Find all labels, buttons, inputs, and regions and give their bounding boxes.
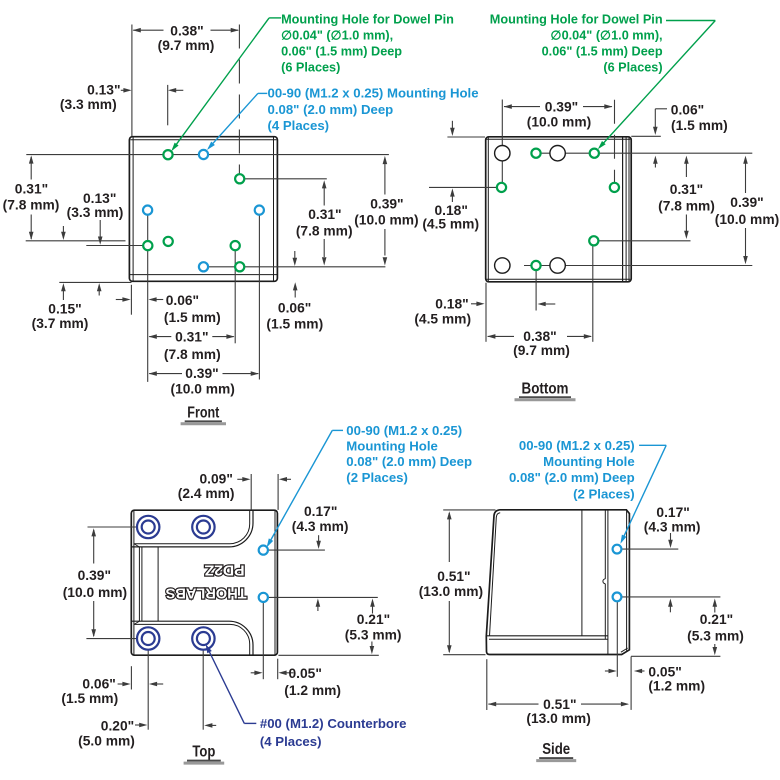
blue leader to side-view mounting hole — [639, 444, 666, 446]
dim 0.05 side extension lines — [616, 602, 618, 677]
dim 0.05 side arrows and label — [605, 670, 610, 672]
svg-text:Mounting Hole for Dowel Pin: Mounting Hole for Dowel Pin — [281, 13, 454, 27]
svg-text:Side: Side — [542, 741, 570, 758]
dim 0.51 left extension lines — [443, 509, 495, 511]
svg-text:(2.4 mm): (2.4 mm) — [178, 486, 235, 501]
svg-text:Bottom: Bottom — [522, 380, 569, 397]
svg-text:Mounting Hole for Dowel Pin: Mounting Hole for Dowel Pin — [490, 13, 663, 27]
bottom view top edge right extension line — [631, 135, 661, 137]
svg-text:0.18": 0.18" — [435, 297, 468, 312]
blue leader to front mounting hole — [258, 92, 267, 94]
svg-text:(13.0 mm): (13.0 mm) — [419, 584, 483, 599]
svg-text:PD2Z: PD2Z — [205, 561, 245, 578]
side view hole row extension lines — [621, 548, 678, 550]
dim 0.05 top-view arrows and label — [251, 672, 256, 674]
svg-text:0.15": 0.15" — [48, 301, 81, 316]
dim 0.39 bottom-view right dimension line — [743, 156, 748, 164]
dim 0.06 top-view extension line — [130, 666, 132, 689]
front lower-left hole row extension lines — [26, 240, 126, 242]
bottom view top edge left extension line — [447, 136, 485, 138]
front mounting holes (blue) — [199, 150, 208, 159]
dim 0.51 bottom dimension line with arrows — [488, 703, 538, 705]
svg-text:0.05": 0.05" — [648, 665, 681, 680]
front top hole row extension line — [26, 154, 389, 156]
svg-text:(5.3 mm): (5.3 mm) — [345, 627, 402, 642]
svg-text:0.06": 0.06" — [82, 677, 115, 692]
top view mounting holes (light blue) — [259, 546, 268, 555]
dim 0.13 top hole extension line — [167, 85, 169, 125]
side view base lip lines — [486, 635, 608, 637]
side view lip right edge line — [607, 511, 609, 655]
svg-text:0.39": 0.39" — [545, 100, 578, 115]
svg-text:0.06" (1.5 mm) Deep: 0.06" (1.5 mm) Deep — [281, 45, 402, 59]
top view flange corner chamfer marks — [134, 544, 139, 547]
bottom view hole row extension lines — [531, 152, 752, 154]
svg-text:(5.0 mm): (5.0 mm) — [78, 733, 135, 748]
top view upper flange outline — [131, 511, 253, 547]
front bottom extension columns — [147, 215, 149, 382]
svg-text:0.17": 0.17" — [656, 505, 689, 520]
dim 0.38 left extension line — [131, 25, 133, 137]
svg-text:0.31": 0.31" — [308, 207, 341, 222]
side view outer outline — [486, 510, 629, 655]
svg-text:(3.3 mm): (3.3 mm) — [60, 97, 117, 112]
svg-text:0.13": 0.13" — [87, 83, 120, 98]
dim 0.21 side label and arrows — [713, 599, 718, 607]
dim 0.15 upper arrow (down to hole row) — [62, 226, 64, 233]
bottom view through holes (black) — [495, 146, 510, 161]
svg-text:(6 Places): (6 Places) — [603, 60, 662, 74]
svg-text:0.39": 0.39" — [730, 195, 763, 210]
front bottom hole row extension line — [208, 266, 385, 268]
dim 0.06 partner up arrow — [653, 156, 658, 164]
dim 0.13 top arrows — [121, 89, 126, 91]
svg-text:0.06": 0.06" — [166, 293, 199, 308]
dim 0.13 lower-left leader arrow — [99, 220, 101, 238]
side view inner right edge line — [626, 511, 628, 651]
svg-text:00-90 (M1.2 x 0.25) Mounting H: 00-90 (M1.2 x 0.25) Mounting Hole — [268, 86, 479, 101]
svg-text:0.39": 0.39" — [185, 366, 218, 381]
top view inner left edge line — [133, 511, 135, 655]
side view inner slant line — [490, 513, 501, 636]
dim 0.39 top dimension line with arrows — [504, 106, 540, 108]
svg-text:THORLABS: THORLABS — [166, 584, 247, 601]
bottom view outer outline — [486, 137, 632, 282]
svg-text:(3.7 mm): (3.7 mm) — [32, 316, 89, 331]
svg-text:0.39": 0.39" — [370, 196, 403, 211]
svg-text:0.17": 0.17" — [304, 504, 337, 519]
dim 0.39 front-right dimension line with arrows — [384, 163, 386, 195]
svg-text:#00 (M1.2) Counterbore: #00 (M1.2) Counterbore — [260, 716, 407, 731]
dim 0.09 extension lines — [250, 474, 252, 510]
top view inner right edge line — [274, 511, 276, 655]
svg-text:0.08" (2.0 mm) Deep: 0.08" (2.0 mm) Deep — [346, 454, 472, 469]
svg-text:0.05": 0.05" — [288, 666, 321, 681]
bottom view dowel pin holes (green) — [531, 149, 540, 158]
front right 0.06 arrows — [294, 251, 296, 259]
svg-text:0.51": 0.51" — [437, 569, 470, 584]
svg-text:(10.0 mm): (10.0 mm) — [527, 114, 591, 129]
svg-text:(2 Places): (2 Places) — [346, 470, 408, 485]
svg-text:0.31": 0.31" — [15, 181, 48, 196]
svg-text:(7.8 mm): (7.8 mm) — [164, 347, 221, 362]
svg-text:(9.7 mm): (9.7 mm) — [158, 38, 215, 53]
dim 0.38 bottom dimension line with arrows — [488, 335, 514, 337]
svg-text:0.13": 0.13" — [83, 191, 116, 206]
svg-text:0.31": 0.31" — [670, 182, 703, 197]
svg-text:(10.0 mm): (10.0 mm) — [715, 212, 779, 227]
bottom view column extension lines — [501, 100, 503, 184]
top view hole row extension lines right — [268, 549, 325, 551]
svg-text:0.38": 0.38" — [170, 23, 203, 38]
svg-text:(1.2 mm): (1.2 mm) — [284, 683, 341, 698]
svg-text:(13.0 mm): (13.0 mm) — [526, 711, 590, 726]
svg-text:0.21": 0.21" — [700, 612, 733, 627]
svg-text:0.06": 0.06" — [278, 301, 311, 316]
dim 0.31 front-right dimension line with arrows — [323, 186, 325, 206]
front view outer outline — [129, 137, 277, 282]
front bottom edge left extension line — [59, 281, 131, 283]
svg-text:∅0.04" (∅1.0 mm),: ∅0.04" (∅1.0 mm), — [551, 29, 663, 43]
svg-text:(1.5 mm): (1.5 mm) — [671, 118, 728, 133]
side view notch arc — [603, 579, 605, 584]
svg-text:(4 Places): (4 Places) — [268, 118, 330, 133]
svg-text:(4.3 mm): (4.3 mm) — [292, 519, 349, 534]
front G2 hole row extension line — [244, 178, 326, 180]
svg-text:00-90 (M1.2 x 0.25): 00-90 (M1.2 x 0.25) — [346, 423, 462, 438]
svg-text:Top: Top — [192, 744, 215, 761]
svg-text:0.08" (2.0 mm) Deep: 0.08" (2.0 mm) Deep — [509, 470, 635, 485]
top view body edge lines — [138, 547, 140, 621]
svg-text:(10.0 mm): (10.0 mm) — [354, 213, 418, 228]
dim 0.38 right extension centerline (dashed) — [238, 25, 240, 175]
svg-text:(6 Places): (6 Places) — [281, 60, 340, 74]
svg-text:(3.3 mm): (3.3 mm) — [67, 205, 124, 220]
svg-text:00-90 (M1.2 x 0.25): 00-90 (M1.2 x 0.25) — [519, 438, 635, 453]
top view outer outline — [131, 510, 277, 655]
svg-text:(7.8 mm): (7.8 mm) — [296, 223, 353, 238]
svg-text:(1.5 mm): (1.5 mm) — [164, 310, 221, 325]
svg-text:0.08" (2.0 mm) Deep: 0.08" (2.0 mm) Deep — [268, 102, 394, 117]
dim 0.15 and 0.13 lower arrows (up to bottom edge) — [61, 283, 66, 291]
side view mounting holes (blue) — [613, 545, 622, 554]
svg-text:0.39": 0.39" — [78, 568, 111, 583]
svg-text:(5.3 mm): (5.3 mm) — [687, 629, 744, 644]
svg-text:0.06": 0.06" — [671, 102, 704, 117]
dim 0.38 dimension line with arrows — [133, 29, 163, 31]
svg-text:(4.5 mm): (4.5 mm) — [414, 312, 471, 327]
dim 0.18 upper-left arrows and label — [451, 121, 453, 129]
svg-text:(1.5 mm): (1.5 mm) — [61, 691, 118, 706]
dim 0.39 bottom dimension line with arrows — [149, 373, 182, 375]
top view counterbores (dark blue) — [137, 516, 159, 538]
svg-text:(2 Places): (2 Places) — [573, 487, 635, 502]
svg-text:0.20": 0.20" — [101, 719, 134, 734]
svg-text:(10.0 mm): (10.0 mm) — [170, 382, 234, 397]
dim 0.51 bottom extension line left — [486, 659, 488, 710]
svg-text:0.21": 0.21" — [357, 612, 390, 627]
top view counterbore column extension lines — [147, 639, 149, 730]
dim 0.31 bottom dimension line with arrows — [149, 336, 171, 338]
svg-text:Mounting Hole: Mounting Hole — [543, 454, 635, 469]
svg-text:0.06" (1.5 mm) Deep: 0.06" (1.5 mm) Deep — [542, 45, 663, 59]
svg-text:(1.5 mm): (1.5 mm) — [266, 316, 323, 331]
side view body edge lines — [581, 511, 583, 636]
svg-text:(7.8 mm): (7.8 mm) — [3, 198, 60, 213]
svg-text:(7.8 mm): (7.8 mm) — [658, 199, 715, 214]
side view inner chamfer at bottom-right corner — [621, 648, 628, 652]
dark blue leader to counterbore — [244, 722, 256, 724]
bottom view inner edge lines — [487, 138, 489, 282]
svg-text:0.09": 0.09" — [199, 472, 232, 487]
top view lower flange outline — [131, 621, 253, 655]
green leader to bottom-view dowel hole — [666, 20, 715, 22]
front dowel pin holes (green) — [163, 150, 172, 159]
blue leader to top-view mounting hole — [332, 429, 343, 431]
dim 0.31 bottom-view right dimension line — [684, 156, 689, 164]
svg-text:(4.5 mm): (4.5 mm) — [422, 217, 479, 232]
dim 0.06 top-right bracket and label — [654, 109, 656, 128]
svg-text:Front: Front — [187, 404, 220, 421]
dim 0.31 left dimension line with arrows — [30, 157, 32, 180]
dim 0.21 top-view label and arrows — [370, 599, 375, 607]
dim 0.39 top-view left dimension line — [91, 528, 96, 536]
dim 0.51 left dimension line with arrows — [447, 511, 452, 519]
svg-text:(4.3 mm): (4.3 mm) — [644, 520, 701, 535]
svg-text:0.38": 0.38" — [523, 329, 556, 344]
dim 0.05 top-view extension lines — [262, 602, 264, 679]
svg-text:0.51": 0.51" — [543, 697, 576, 712]
green leader to front dowel hole — [269, 17, 281, 19]
svg-text:0.31": 0.31" — [175, 329, 208, 344]
svg-text:(9.7 mm): (9.7 mm) — [513, 343, 570, 358]
dim 0.06 bottom arrows and label — [116, 299, 124, 301]
front view inner edge lines — [132, 137, 134, 280]
svg-text:(10.0 mm): (10.0 mm) — [63, 585, 127, 600]
svg-text:(4 Places): (4 Places) — [260, 734, 322, 749]
dim 0.09 arrows and label — [237, 478, 243, 480]
svg-text:∅0.04" (∅1.0 mm),: ∅0.04" (∅1.0 mm), — [281, 29, 393, 43]
dim 0.06 top-view arrows and label — [118, 683, 123, 685]
dim 0.20 arrows and label — [135, 724, 141, 726]
svg-text:Mounting Hole: Mounting Hole — [346, 439, 438, 454]
svg-text:(1.2 mm): (1.2 mm) — [648, 679, 705, 694]
